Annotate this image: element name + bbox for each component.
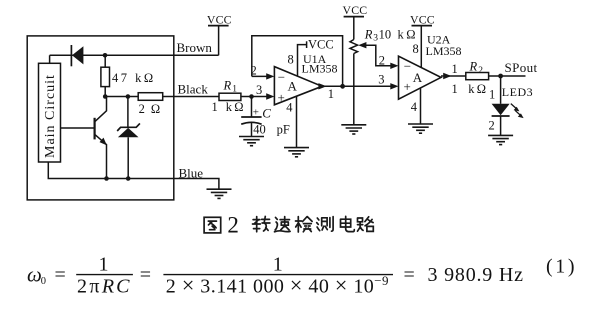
resistor 47kohm	[104, 55, 106, 67]
Main Circuit block	[39, 63, 61, 162]
svg-text:1: 1	[99, 254, 109, 276]
svg-text:=: =	[140, 264, 151, 286]
ground (LED)	[488, 135, 513, 144]
wire: Blue rail	[48, 162, 219, 189]
svg-text:0: 0	[41, 276, 46, 287]
svg-text:47 kΩ: 47 kΩ	[112, 71, 156, 85]
node: diode/47k junction	[103, 53, 108, 58]
node: 47k bottom	[103, 94, 108, 99]
svg-text:40: 40	[253, 122, 266, 136]
node: cap junction	[249, 94, 254, 99]
node: emitter-blue junction	[104, 176, 109, 181]
svg-text:(1): (1)	[546, 256, 577, 278]
resistor R2	[466, 73, 489, 80]
svg-text:2πRC: 2πRC	[77, 275, 131, 297]
svg-text:2: 2	[227, 213, 239, 238]
svg-text:=: =	[404, 264, 415, 286]
svg-text:2: 2	[478, 66, 483, 76]
LED light arrows	[511, 104, 517, 110]
equation: omega0 = 1/(2piRC) = 1/(2x3.141000x40x10^-9) = 3980.9 Hz (1)	[27, 254, 577, 298]
svg-text:8: 8	[413, 42, 419, 56]
ground (R3)	[341, 125, 366, 134]
svg-text:+: +	[404, 79, 411, 94]
svg-text:=: =	[55, 264, 66, 286]
node: feedback junction	[340, 84, 345, 89]
char 路	[358, 217, 374, 232]
svg-text:R: R	[223, 78, 232, 92]
svg-text:VCC: VCC	[343, 3, 368, 17]
svg-text:VCC: VCC	[410, 12, 435, 26]
svg-text:+: +	[253, 107, 259, 119]
svg-text:Brown: Brown	[177, 40, 213, 55]
outer enclosure box	[27, 36, 174, 200]
svg-text:LM358: LM358	[302, 62, 338, 76]
svg-text:ω: ω	[27, 263, 42, 287]
svg-text:VCC: VCC	[207, 12, 232, 26]
svg-text:A: A	[413, 70, 423, 85]
char 检	[296, 217, 313, 232]
svg-text:−: −	[278, 69, 285, 84]
svg-text:2: 2	[489, 118, 495, 132]
svg-text:−: −	[404, 58, 411, 73]
svg-text:A: A	[288, 79, 298, 94]
wire: R3 wiper to U2A minus	[366, 45, 396, 66]
ground (U1A pin4)	[284, 148, 309, 157]
resistor 2ohm	[138, 93, 163, 101]
potentiometer R3	[353, 17, 355, 40]
transistor Q1	[61, 127, 95, 129]
svg-text:kΩ: kΩ	[398, 27, 419, 41]
svg-text:1: 1	[273, 254, 283, 276]
char 速	[275, 217, 291, 232]
svg-text:8: 8	[288, 52, 294, 66]
svg-text:2: 2	[379, 53, 385, 67]
char 图	[204, 217, 221, 233]
svg-text:pF: pF	[277, 122, 290, 136]
svg-text:3 980.9 Hz: 3 980.9 Hz	[428, 264, 524, 286]
svg-text:3: 3	[378, 72, 384, 86]
wire: Brown rail to VCC	[50, 54, 219, 56]
capacitor C	[251, 97, 253, 118]
char 转	[253, 216, 270, 231]
pin 8 lead U2A	[420, 26, 422, 68]
svg-text:1: 1	[452, 82, 458, 96]
wire: U1A output rail to U2A plus	[322, 85, 395, 87]
pin 4 lead U2A	[420, 89, 422, 125]
svg-text:Blue: Blue	[179, 166, 204, 181]
svg-text:R: R	[469, 60, 478, 74]
svg-text:Black: Black	[178, 82, 209, 97]
svg-text:+: +	[278, 90, 285, 105]
svg-text:C: C	[262, 106, 271, 121]
diode D1	[70, 45, 72, 66]
resistor R1	[219, 93, 241, 100]
svg-text:LED3: LED3	[502, 85, 533, 99]
op-amp U2A	[399, 56, 442, 99]
caption: 图 2 转速检测电路	[204, 217, 221, 233]
svg-text:2Ω: 2Ω	[139, 102, 167, 116]
char 电	[341, 216, 355, 231]
svg-text:1: 1	[452, 62, 458, 76]
node: zener top	[126, 94, 131, 99]
svg-text:3: 3	[256, 83, 262, 97]
svg-text:R: R	[364, 27, 373, 41]
svg-text:1: 1	[489, 88, 495, 102]
wire: R1 to U1A plus input	[241, 96, 271, 98]
fraction 1 bar	[76, 274, 133, 276]
wire: R2 to SPout	[489, 75, 526, 77]
wire: Main Circuit top lead	[49, 55, 51, 63]
char 测	[317, 217, 333, 232]
zener diode	[127, 97, 129, 128]
svg-text:LM358: LM358	[426, 44, 462, 58]
svg-text:VCC: VCC	[308, 38, 334, 52]
wire: Black rail	[105, 96, 138, 98]
pin 8 lead U1A with VCC	[298, 45, 307, 76]
svg-text:4: 4	[411, 100, 418, 114]
ground (capacitor)	[239, 137, 264, 146]
ground (blue rail)	[207, 189, 232, 198]
fraction 2 bar	[163, 274, 393, 276]
svg-text:1: 1	[328, 87, 334, 101]
svg-text:1: 1	[232, 85, 237, 95]
svg-text:Main Circuit: Main Circuit	[43, 74, 58, 158]
svg-text:3: 3	[373, 34, 378, 44]
svg-text:SPout: SPout	[505, 60, 538, 75]
ground (U2A pin4)	[408, 124, 433, 133]
wire: black rail to R1	[163, 96, 219, 98]
pin 4 lead U1A	[296, 96, 298, 147]
svg-text:1: 1	[212, 100, 218, 114]
svg-text:4: 4	[286, 101, 293, 115]
svg-text:10: 10	[379, 27, 392, 41]
svg-text:2: 2	[251, 64, 257, 78]
svg-text:2 × 3.141 000 × 40 × 10−9: 2 × 3.141 000 × 40 × 10−9	[166, 273, 389, 298]
op-amp U1A	[274, 67, 322, 105]
wire: U2A output to R2	[441, 75, 466, 77]
LED3	[500, 76, 502, 104]
wire: U1A minus input + feedback loop	[252, 36, 343, 87]
node: SPout junction	[498, 74, 503, 79]
svg-text:kΩ: kΩ	[468, 82, 488, 96]
svg-text:kΩ: kΩ	[226, 100, 246, 114]
node: zener-blue junction	[126, 176, 131, 181]
